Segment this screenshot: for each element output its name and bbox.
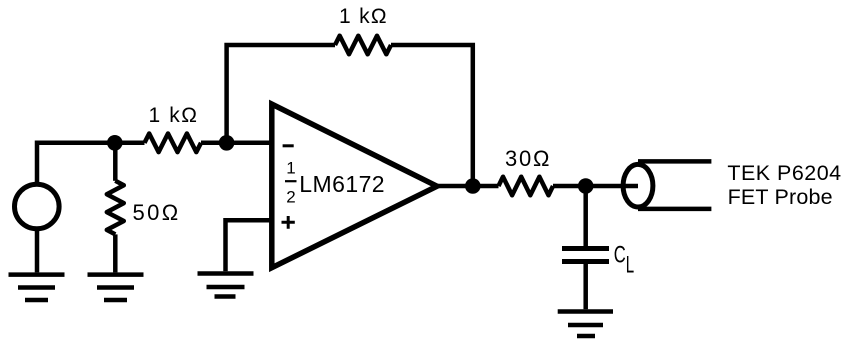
svg-text:LM6172: LM6172 [299,171,384,197]
op-amp minus sign [283,144,294,147]
resistor 30Ω [499,177,554,196]
wire: feedback left vertical up [227,45,335,143]
op-amp plus sign [282,216,295,229]
node: op-amp output junction [465,178,481,194]
wire: load node down to capacitor [583,186,588,246]
svg-text:FET Probe: FET Probe [728,185,833,209]
node: input junction (source / 50Ω / 1kΩ) [107,135,123,151]
wire: feedback top right and down to output node [391,45,473,186]
op-amp fraction bar [285,180,297,182]
ground (below op-amp + input) [198,274,254,297]
source generator (circle) [15,184,60,229]
svg-text:TEK P6204: TEK P6204 [727,161,841,185]
resistor 1 kΩ (input) [145,134,202,153]
node: load junction (30Ω / CL / probe) [578,178,594,194]
capacitor CL top plate [562,246,609,251]
svg-text:1: 1 [286,159,295,178]
wire: 30Ω to probe [553,184,638,189]
node: inverting input junction (1kΩ / feedback) [219,135,235,151]
svg-text:1 kΩ: 1 kΩ [149,104,198,127]
wire: 50Ω branch to ground [113,234,118,272]
wire: capacitor to ground [583,264,588,310]
probe barrel ellipse [623,164,653,207]
resistor 1 kΩ (feedback) [335,36,391,55]
svg-text:L: L [626,251,634,278]
wire: 50Ω branch top [113,143,118,181]
capacitor CL bottom plate [562,259,609,264]
svg-text:2: 2 [286,187,295,206]
resistor 50Ω [107,181,124,235]
svg-text:30Ω: 30Ω [505,146,550,171]
svg-text:50Ω: 50Ω [133,200,179,225]
op-amp U1 triangle [272,104,437,268]
svg-text:C: C [614,242,626,269]
ground (below CL) [558,312,613,337]
wire: op-amp non-inverting input to ground [226,220,274,271]
wire: input row from source to op-amp inverting input [37,143,273,185]
svg-text:1 kΩ: 1 kΩ [339,5,387,28]
ground (below source) [9,275,65,300]
ground (below 50Ω) [88,275,144,300]
wire: output to 30Ω [434,184,499,189]
probe barrel top line [638,159,711,164]
probe barrel bottom line [638,207,711,212]
wire: source to ground [35,229,40,273]
